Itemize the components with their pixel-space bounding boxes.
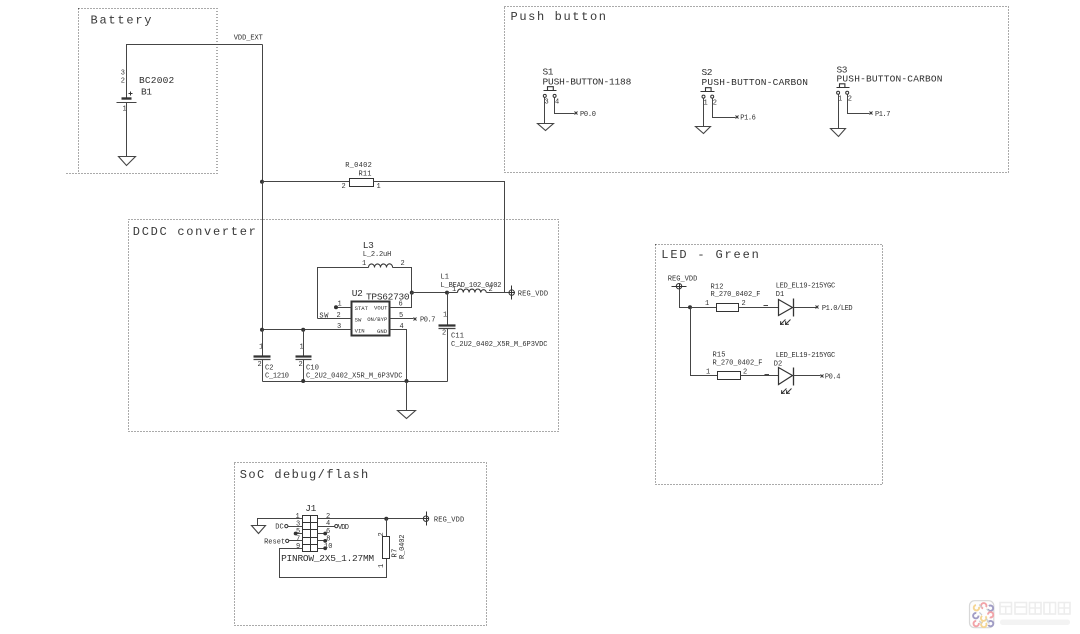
connector J1 ref label bbox=[305, 503, 316, 514]
wire S1 pin3 to ground bbox=[544, 98, 546, 124]
wire VOUT to node bbox=[390, 293, 412, 308]
U2 pin name STAT bbox=[355, 305, 369, 312]
svg-text:3: 3 bbox=[545, 99, 549, 107]
capacitor C10 plates bbox=[296, 357, 312, 360]
battery B1 pin 1 number bbox=[123, 106, 127, 114]
svg-text:P0.4: P0.4 bbox=[825, 374, 841, 382]
wire REG_VDD junction down to R7 bbox=[386, 519, 388, 537]
svg-text:D1: D1 bbox=[776, 291, 785, 299]
section title Battery bbox=[91, 14, 152, 28]
node junction GND branch/ground rail bbox=[405, 379, 409, 383]
watermark text blocks bbox=[1000, 603, 1070, 615]
svg-text:2: 2 bbox=[401, 260, 405, 268]
node no-connect dot pin8 bbox=[323, 539, 327, 543]
Push button section dashed box bbox=[505, 7, 1009, 173]
net port X mark P1.0/LED bbox=[816, 306, 819, 309]
capacitor C11 plates bbox=[439, 326, 456, 329]
node junction VOUT at L3 bbox=[410, 291, 414, 295]
wire VDD_EXT junction down to VIN row bbox=[262, 182, 264, 330]
switch S3 pin 1 number bbox=[838, 96, 842, 104]
svg-text:P1.0/LED: P1.0/LED bbox=[822, 305, 853, 313]
net label SW bbox=[319, 313, 329, 321]
wire S2 pin2 to P1.6 bbox=[713, 99, 736, 118]
op-amp U2 ref label bbox=[352, 288, 363, 299]
ferrite bead L1 pin 2 number bbox=[489, 286, 493, 294]
resistor R15 pin 1 number bbox=[706, 368, 710, 376]
net label REG_VDD bbox=[518, 290, 548, 298]
svg-text:PUSH-BUTTON-CARBON: PUSH-BUTTON-CARBON bbox=[837, 73, 943, 84]
wire L3 pin2 to VOUT node bbox=[393, 268, 412, 293]
capacitor C10 top stub bbox=[303, 330, 305, 356]
label BC2002 bbox=[139, 75, 174, 86]
D1 anode tick bbox=[764, 305, 769, 307]
resistor R7 pin 1 number bbox=[378, 564, 386, 568]
capacitor C11 top stub bbox=[447, 293, 449, 325]
capacitor C2 plates bbox=[254, 357, 271, 360]
wire R12 to D1 anode bbox=[739, 307, 779, 309]
wire branch down to R15 row bbox=[691, 308, 708, 376]
power port REG_VDD (DCDC output) bbox=[509, 286, 515, 300]
capacitor C11 ref label bbox=[451, 333, 464, 341]
net label P0.7 bbox=[420, 317, 436, 325]
node junction R12/R15 branch bbox=[688, 305, 692, 309]
wire SW net up and over to L3 bbox=[318, 268, 369, 319]
svg-text:P1.6: P1.6 bbox=[740, 115, 756, 123]
capacitor C10 pin 2 number bbox=[299, 361, 303, 369]
J1 pin 6 number bbox=[326, 528, 330, 536]
capacitor C2 value label C_1210 bbox=[265, 373, 289, 381]
svg-text:C11: C11 bbox=[451, 333, 464, 341]
svg-text:P0.0: P0.0 bbox=[580, 111, 596, 119]
svg-text:LED - Green: LED - Green bbox=[661, 248, 759, 262]
watermark url line bbox=[1000, 620, 1070, 626]
svg-text:REG_VDD: REG_VDD bbox=[518, 290, 548, 298]
svg-text:1: 1 bbox=[378, 564, 386, 568]
svg-text:B1: B1 bbox=[141, 87, 152, 98]
wire bead pin2 to REG_VDD port bbox=[487, 292, 510, 294]
net port X mark P0.7 bbox=[414, 318, 417, 321]
capacitor C11 pin 2 number bbox=[442, 330, 446, 338]
capacitor C11 pin 1 number bbox=[443, 312, 447, 320]
ground battery bbox=[119, 157, 136, 166]
battery B1 symbol bbox=[117, 92, 137, 103]
wire junction to R11 pin2 bbox=[263, 181, 350, 183]
svg-text:SoC debug/flash: SoC debug/flash bbox=[240, 468, 369, 482]
resistor R7 body bbox=[383, 537, 390, 559]
wire battery positive to VDD_EXT bbox=[127, 45, 263, 98]
resistor R15 ref label bbox=[713, 351, 726, 359]
ferrite bead L1 coil bbox=[458, 289, 487, 292]
svg-text:R12: R12 bbox=[711, 283, 724, 291]
node no-connect dot pin5 bbox=[294, 532, 298, 536]
ferrite bead L1 value label L_BEAD_102_0402 bbox=[441, 282, 502, 290]
capacitor C2 pin 2 number bbox=[258, 361, 262, 369]
node junction at C11 top bbox=[445, 291, 449, 295]
power port REG_VDD (SoC) bbox=[423, 512, 429, 526]
DCDC converter section dashed box bbox=[129, 220, 559, 432]
wire VIN from junction to U2 bbox=[263, 329, 352, 331]
switch S3 symbol bbox=[837, 84, 850, 95]
svg-text:SW: SW bbox=[355, 317, 362, 324]
net label P0.0 bbox=[580, 111, 596, 119]
switch S1 pin 4 number bbox=[555, 99, 559, 107]
switch S2 value label PUSH-BUTTON-CARBON bbox=[702, 77, 809, 88]
resistor R11 pin 1 number bbox=[377, 183, 381, 191]
wire J1 pin1 to ground arrow bbox=[258, 519, 303, 526]
U2 pin name ON/BYP bbox=[367, 316, 388, 323]
resistor R11 ref label bbox=[359, 171, 372, 179]
wire J1 pin9 loop to R7 bottom bbox=[280, 549, 387, 578]
node junction R7 top / pin2 wire bbox=[384, 517, 388, 521]
U2 value label TPS62730 bbox=[366, 291, 410, 302]
inductor L3 pin 1 number bbox=[362, 260, 366, 268]
switch S2 symbol bbox=[701, 88, 715, 98]
switch S3 ref label bbox=[837, 65, 848, 76]
resistor R7 value label R_0402 bbox=[399, 535, 407, 560]
J1 pin 7 number bbox=[296, 535, 300, 543]
wire VDD_EXT down to R11 row bbox=[262, 45, 264, 182]
capacitor C2 top stub bbox=[262, 330, 264, 356]
svg-text:ON/BYP: ON/BYP bbox=[367, 316, 388, 323]
wire Reset port to J1 pin7 bbox=[289, 540, 303, 542]
ferrite bead L1 ref label bbox=[441, 274, 450, 282]
net label VDD_EXT bbox=[234, 35, 263, 43]
wire J1 pin5 stub bbox=[296, 533, 303, 535]
capacitor C2 ref label bbox=[265, 365, 274, 373]
section title LED - Green bbox=[661, 248, 759, 262]
capacitor C10 ref label bbox=[306, 365, 319, 373]
J1 pin 10 number bbox=[324, 543, 332, 551]
resistor R11 pin 2 number bbox=[342, 183, 346, 191]
wire J1 pin10 stub bbox=[318, 548, 326, 550]
svg-text:1: 1 bbox=[705, 300, 709, 308]
wire SW to U2 bbox=[318, 318, 352, 320]
svg-text:Push button: Push button bbox=[511, 10, 607, 24]
Battery section dashed box bbox=[67, 9, 218, 174]
U2 pin name SW bbox=[355, 317, 362, 324]
node junction VIN/C2 bbox=[260, 328, 264, 332]
resistor R15 body bbox=[718, 372, 741, 380]
resistor R11 body bbox=[350, 179, 374, 187]
capacitor C10 pin 1 number bbox=[300, 344, 304, 352]
wire ON/BYP to P0.7 bbox=[390, 318, 414, 320]
svg-text:R_0402: R_0402 bbox=[399, 535, 407, 560]
wire J1 pin8 stub bbox=[318, 540, 326, 542]
svg-text:C_2U2_0402_X5R_M_6P3VDC: C_2U2_0402_X5R_M_6P3VDC bbox=[451, 341, 548, 349]
net label DC bbox=[275, 524, 284, 532]
wire S2 pin1 to ground bbox=[703, 99, 705, 127]
wire S1 pin4 to P0.0 bbox=[555, 98, 575, 114]
ground S3 bbox=[831, 129, 846, 137]
capacitor C11 bottom stub bbox=[447, 329, 449, 382]
svg-text:BC2002: BC2002 bbox=[139, 75, 174, 86]
wire VOUT node to bead node bbox=[412, 292, 448, 294]
switch S1 ref label bbox=[543, 67, 554, 78]
net label VDD bbox=[338, 524, 349, 532]
net label P0.4 bbox=[825, 374, 841, 382]
wire S3 pin1 to ground bbox=[838, 95, 840, 129]
resistor R7 ref label bbox=[392, 549, 400, 558]
svg-text:L1: L1 bbox=[441, 274, 450, 282]
svg-text:J1: J1 bbox=[305, 503, 316, 514]
watermark logo arcs bbox=[973, 603, 993, 627]
switch S3 pin 2 number bbox=[848, 96, 852, 104]
J1 pin 4 number bbox=[326, 520, 330, 528]
svg-text:LED_EL19-215YGC: LED_EL19-215YGC bbox=[776, 352, 836, 360]
node STAT no-connect dot bbox=[334, 305, 338, 309]
U2 pin 6 number bbox=[399, 301, 403, 309]
LED D1 ref label bbox=[776, 291, 785, 299]
switch S2 pin 2 number bbox=[713, 99, 717, 107]
svg-text:REG_VDD: REG_VDD bbox=[668, 276, 698, 284]
svg-text:R15: R15 bbox=[713, 351, 726, 359]
inductor L3 ref label bbox=[363, 240, 374, 251]
wire R11 pin1 to REG_VDD corner bbox=[374, 182, 505, 293]
net port X mark P1.6 bbox=[736, 116, 739, 119]
battery B1 pin 3 number bbox=[121, 70, 125, 78]
wire GND pin to ground branch bbox=[390, 330, 407, 382]
svg-text:VIN: VIN bbox=[355, 328, 365, 335]
svg-text:P0.7: P0.7 bbox=[420, 317, 436, 325]
ground S1 bbox=[538, 124, 554, 131]
J1 pin 1 number bbox=[296, 513, 300, 521]
node no-connect dot pin6 bbox=[323, 532, 327, 536]
svg-text:R_270_0402_F: R_270_0402_F bbox=[711, 291, 761, 299]
port circle VDD (pin4) bbox=[335, 525, 338, 528]
svg-text:L3: L3 bbox=[363, 240, 374, 251]
svg-text:C_2U2_0402_X5R_M_6P3VDC: C_2U2_0402_X5R_M_6P3VDC bbox=[306, 373, 403, 381]
svg-text:Battery: Battery bbox=[91, 14, 152, 28]
wire S3 pin2 to P1.7 bbox=[848, 95, 870, 114]
ferrite bead L1 pin 1 number bbox=[452, 286, 456, 294]
svg-text:2: 2 bbox=[299, 361, 303, 369]
node no-connect dot pin10 bbox=[323, 546, 327, 550]
wire DCDC bottom ground rail bbox=[263, 381, 448, 383]
net label REG_VDD (SoC) bbox=[434, 517, 464, 525]
U2 pin 4 number bbox=[400, 323, 404, 331]
LED D2 value label LED_EL19-215YGC bbox=[776, 352, 836, 360]
net label P1.0/LED bbox=[822, 305, 853, 313]
resistor R12 pin 1 number bbox=[705, 300, 709, 308]
node junction VIN/C10 bbox=[301, 328, 305, 332]
svg-text:PUSH-BUTTON-1188: PUSH-BUTTON-1188 bbox=[543, 76, 632, 87]
J1 pin 3 number bbox=[296, 521, 300, 529]
J1 pin 2 number bbox=[326, 513, 330, 521]
capacitor C11 value label bbox=[451, 341, 548, 349]
svg-text:2: 2 bbox=[121, 78, 125, 86]
resistor R12 pin 2 number bbox=[742, 300, 746, 308]
svg-text:R11: R11 bbox=[359, 171, 372, 179]
LED D2 symbol bbox=[779, 368, 794, 386]
switch S2 ref label bbox=[702, 67, 713, 78]
wire branch to R15 bbox=[708, 375, 718, 377]
switch S2 pin 1 number bbox=[704, 99, 708, 107]
ground DCDC bbox=[398, 411, 416, 419]
LED D2 ref label bbox=[774, 361, 783, 369]
svg-text:PINROW_2X5_1.27MM: PINROW_2X5_1.27MM bbox=[281, 553, 374, 564]
U2 pin name GND bbox=[377, 328, 388, 335]
resistor R12 ref label bbox=[711, 283, 724, 291]
svg-text:1: 1 bbox=[704, 99, 708, 107]
node junction C10/ground rail bbox=[301, 379, 305, 383]
power port REG_VDD (LED) bbox=[672, 284, 687, 289]
svg-text:9: 9 bbox=[296, 543, 300, 551]
switch S3 value label PUSH-BUTTON-CARBON bbox=[837, 73, 943, 84]
net port X mark P1.7 bbox=[870, 112, 873, 115]
svg-text:VOUT: VOUT bbox=[374, 305, 388, 312]
switch S1 pin 3 number bbox=[545, 99, 549, 107]
svg-text:STAT: STAT bbox=[355, 305, 369, 312]
resistor R7 pin 2 number bbox=[378, 532, 386, 536]
svg-text:C10: C10 bbox=[306, 365, 319, 373]
D2 anode tick bbox=[765, 374, 770, 376]
connector J1 body bbox=[303, 516, 318, 552]
svg-text:R_270_0402_F: R_270_0402_F bbox=[713, 359, 763, 367]
svg-text:GND: GND bbox=[377, 328, 388, 335]
svg-text:1: 1 bbox=[362, 260, 366, 268]
wire J1 pin4 to VDD port bbox=[318, 526, 335, 528]
switch S1 symbol bbox=[543, 87, 556, 98]
resistor R_0402 value label bbox=[345, 162, 372, 170]
U2 pin 3 number bbox=[337, 323, 341, 331]
svg-text:LED_EL19-215YGC: LED_EL19-215YGC bbox=[776, 282, 836, 290]
wire junction to R12 bbox=[691, 307, 717, 309]
section title SoC debug/flash bbox=[240, 468, 369, 482]
label B1 bbox=[141, 87, 152, 98]
connector J1 value label PINROW_2X5_1.27MM bbox=[281, 553, 374, 564]
J1 pin 9 number bbox=[296, 543, 300, 551]
svg-text:2: 2 bbox=[848, 96, 852, 104]
port circle Reset (pin7) bbox=[286, 539, 289, 542]
wire C11 node to bead bbox=[448, 292, 458, 294]
capacitor C2 bottom stub bbox=[262, 360, 264, 382]
svg-text:2: 2 bbox=[378, 532, 386, 536]
resistor R12 value label R_270_0402_F bbox=[711, 291, 761, 299]
svg-text:Reset: Reset bbox=[264, 538, 285, 546]
LED - Green section dashed box bbox=[656, 245, 883, 485]
inductor L3 pin 2 number bbox=[401, 260, 405, 268]
wire J1 pin2 to REG_VDD bbox=[318, 518, 424, 520]
wire battery negative to ground bbox=[126, 103, 128, 157]
svg-text:REG_VDD: REG_VDD bbox=[434, 517, 464, 525]
LED D1 symbol bbox=[779, 299, 794, 317]
svg-text:PUSH-BUTTON-CARBON: PUSH-BUTTON-CARBON bbox=[702, 77, 809, 88]
net label P1.7 bbox=[875, 111, 891, 119]
wire D1 cathode to P1.0/LED bbox=[794, 307, 817, 309]
svg-text:4: 4 bbox=[555, 99, 559, 107]
node junction VDD_EXT/R11 bbox=[260, 180, 264, 184]
svg-text:P1.7: P1.7 bbox=[875, 111, 891, 119]
J1 pin 5 number bbox=[296, 528, 300, 536]
SoC debug/flash section dashed box bbox=[235, 463, 487, 626]
svg-text:1: 1 bbox=[377, 183, 381, 191]
IC U2 body bbox=[352, 302, 390, 336]
ground arrow (pin1) bbox=[252, 526, 266, 534]
svg-text:DCDC converter: DCDC converter bbox=[133, 225, 256, 239]
svg-text:2: 2 bbox=[713, 99, 717, 107]
LED D2 emission arrows bbox=[782, 389, 792, 394]
wire REG_VDD port down to R12 row bbox=[680, 289, 691, 308]
watermark logo box bbox=[970, 601, 994, 628]
svg-text:C2: C2 bbox=[265, 365, 274, 373]
U2 pin 1 number bbox=[338, 301, 342, 309]
svg-text:1: 1 bbox=[443, 312, 447, 320]
svg-text:C_1210: C_1210 bbox=[265, 373, 289, 381]
section title Push button bbox=[511, 10, 607, 24]
inductor L3 coil bbox=[369, 264, 393, 268]
wire D2 cathode to P0.4 bbox=[794, 375, 821, 377]
svg-text:VDD: VDD bbox=[338, 524, 349, 532]
port circle DC (pin3) bbox=[285, 525, 288, 528]
svg-text:VDD_EXT: VDD_EXT bbox=[234, 35, 263, 43]
U2 pin name VOUT bbox=[374, 305, 388, 312]
capacitor C10 bottom stub bbox=[303, 360, 305, 382]
wire STAT stub bbox=[337, 307, 352, 309]
svg-text:DC: DC bbox=[275, 524, 284, 532]
wire J1 pin6 stub bbox=[318, 533, 326, 535]
ground S2 bbox=[696, 127, 711, 134]
svg-text:2: 2 bbox=[342, 183, 346, 191]
U2 pin name VIN bbox=[355, 328, 365, 335]
LED D1 emission arrows bbox=[781, 320, 791, 325]
resistor R12 body bbox=[717, 304, 739, 312]
net label REG_VDD (LED) bbox=[668, 276, 698, 284]
U2 pin 5 number bbox=[399, 312, 403, 320]
resistor R15 value label R_270_0402_F bbox=[713, 359, 763, 367]
switch S1 value label PUSH-BUTTON-1188 bbox=[543, 76, 632, 87]
wire R15 to D2 anode bbox=[741, 375, 779, 377]
resistor R15 pin 2 number bbox=[743, 368, 747, 376]
net port X mark P0.0 bbox=[575, 112, 578, 115]
svg-text:U2: U2 bbox=[352, 288, 363, 299]
section title DCDC converter bbox=[133, 225, 256, 239]
U2 pin 2 number bbox=[337, 312, 341, 320]
svg-text:L_2.2uH: L_2.2uH bbox=[363, 251, 392, 259]
wire DC port to J1 pin3 bbox=[288, 526, 303, 528]
battery B1 pin 2 number bbox=[121, 78, 125, 86]
net label Reset bbox=[264, 538, 285, 546]
capacitor C10 value label bbox=[306, 373, 403, 381]
svg-text:2: 2 bbox=[742, 300, 746, 308]
svg-text:SW: SW bbox=[319, 313, 329, 321]
net port X mark P0.4 bbox=[821, 375, 824, 378]
svg-text:3: 3 bbox=[121, 70, 125, 78]
net label P1.6 bbox=[740, 115, 756, 123]
capacitor C2 pin 1 number bbox=[259, 344, 263, 352]
LED D1 value label LED_EL19-215YGC bbox=[776, 282, 836, 290]
svg-text:2: 2 bbox=[258, 361, 262, 369]
svg-text:2: 2 bbox=[442, 330, 446, 338]
inductor L3 value label L_2.2uH bbox=[363, 251, 392, 259]
wire ground rail to ground symbol bbox=[406, 382, 408, 411]
J1 pin 8 number bbox=[326, 535, 330, 543]
svg-text:R_0402: R_0402 bbox=[345, 162, 372, 170]
